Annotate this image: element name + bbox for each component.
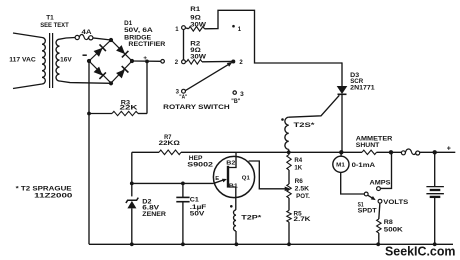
transformer T1 primary winding: [13, 33, 45, 89]
svg-text:B2: B2: [226, 161, 235, 167]
Q1 B1 lead: [229, 187, 236, 210]
node bridge top: [109, 38, 113, 42]
svg-text:VOLTS: VOLTS: [383, 199, 408, 206]
wire plus vertical: [146, 61, 148, 113]
label 1 right: [238, 27, 242, 33]
label SPDT: [358, 208, 377, 215]
label quote A: [179, 95, 187, 101]
label 22Kohm: [159, 140, 180, 147]
node shunt right: [389, 150, 393, 154]
svg-text:+: +: [447, 146, 451, 153]
label quote B: [231, 99, 240, 105]
svg-text:1K: 1K: [294, 165, 302, 172]
switch S1 VOLTS contact: [378, 199, 382, 203]
Q1 B2 lead: [229, 152, 236, 167]
zener diode D2: [126, 198, 138, 245]
label RECTIFIER: [128, 41, 166, 48]
node plus: [145, 60, 149, 64]
node zener bottom: [130, 242, 134, 246]
wire fuse to bridge: [93, 38, 111, 40]
label 0-1mA: [352, 162, 376, 169]
node bridge left: [87, 59, 91, 63]
svg-text:RECTIFIER: RECTIFIER: [128, 41, 166, 48]
svg-text:2N1771: 2N1771: [350, 84, 375, 91]
Q1 emitter lead: [214, 179, 227, 184]
rotary contact A1: [182, 26, 186, 30]
svg-text:SeekIC.com: SeekIC.com: [385, 244, 456, 258]
node bridge bottom: [109, 81, 113, 85]
svg-text:S9002: S9002: [187, 162, 213, 169]
svg-text:B1: B1: [229, 184, 238, 190]
switch S1 arm: [368, 195, 376, 200]
transformer T2S winding: [285, 117, 289, 152]
resistor R5: [287, 210, 291, 244]
node C1 bottom: [181, 242, 185, 246]
label T2S: [294, 122, 316, 129]
svg-text:16V: 16V: [60, 56, 72, 63]
label M1: [336, 162, 345, 168]
resistor R8: [377, 203, 381, 244]
svg-text:D1: D1: [124, 20, 133, 27]
wire A1-A2 strap: [183, 30, 185, 60]
svg-text:2.7K: 2.7K: [294, 216, 312, 223]
label R8: [384, 219, 394, 226]
svg-text:SEE TEXT: SEE TEXT: [40, 22, 69, 29]
meter M1 bottom wire: [341, 172, 365, 194]
label S9002: [187, 162, 213, 169]
bridge diode lower-right: [116, 66, 128, 78]
resistor R7: [159, 150, 181, 155]
label HEP: [189, 155, 203, 162]
terminal plus open circle: [161, 60, 165, 64]
label 1K: [294, 165, 302, 172]
label SEE TEXT: [40, 22, 69, 29]
label 2 left: [175, 60, 179, 66]
node B2: [231, 60, 235, 64]
transistor Q1 circle: [213, 156, 254, 197]
node R5 bottom: [287, 242, 291, 246]
rotary contact B1: [232, 25, 235, 28]
svg-text:R6: R6: [295, 178, 304, 185]
potentiometer R6: [287, 184, 291, 210]
meter M1: [333, 152, 349, 172]
bridge diode upper-left: [94, 44, 106, 56]
label R2 30W: [190, 53, 206, 60]
label D1: [124, 20, 133, 27]
label 16V: [60, 56, 72, 63]
SCR D3 gate wire: [289, 95, 340, 117]
svg-text:SHUNT: SHUNT: [356, 142, 380, 149]
svg-text:ROTARY SWITCH: ROTARY SWITCH: [163, 104, 230, 111]
label R2: [190, 41, 201, 48]
label 117 VAC: [9, 56, 36, 63]
label plus output: [447, 146, 451, 153]
resistor R4: [287, 152, 291, 184]
label 3 left: [176, 89, 180, 95]
svg-text:POT.: POT.: [296, 193, 310, 200]
svg-text:3: 3: [240, 91, 244, 98]
wire Q1 to pot wiper: [249, 161, 291, 191]
wire zener node to emitter: [132, 182, 214, 184]
label ROTARY SWITCH: [163, 104, 230, 111]
node battery top: [433, 150, 437, 154]
node R8 bottom: [376, 242, 380, 246]
node R3 left: [87, 112, 91, 116]
label 2N1771: [350, 84, 375, 91]
label B2: [226, 161, 235, 167]
label R3: [121, 99, 131, 106]
label POT.: [296, 193, 310, 200]
capacitor C1: [176, 183, 189, 244]
label T2 part number: [34, 192, 73, 199]
transformer T1 secondary winding: [56, 38, 111, 84]
svg-text:E: E: [215, 176, 219, 182]
battery B1: [426, 152, 444, 244]
svg-text:50V: 50V: [190, 211, 206, 218]
svg-text:C1: C1: [190, 196, 200, 203]
label R1 9ohm: [190, 15, 201, 22]
svg-text:R1: R1: [190, 6, 200, 13]
bridge diode lower-left: [94, 67, 106, 79]
resistor R2: [185, 60, 231, 65]
wire AMPS to shunt: [381, 152, 392, 188]
label plus small: [143, 55, 147, 62]
fuse F1 4A: [75, 34, 93, 39]
svg-text:T2S*: T2S*: [294, 122, 316, 129]
label R7: [164, 134, 172, 141]
svg-text:30W: 30W: [190, 53, 206, 60]
label 2.5K: [295, 186, 310, 193]
label Q1: [242, 176, 251, 182]
label 50V: [190, 211, 206, 218]
label 6.8V: [142, 205, 160, 212]
svg-text:22K: 22K: [120, 105, 139, 112]
label R1: [190, 6, 200, 13]
svg-text:Q1: Q1: [242, 176, 251, 182]
label .1uF: [190, 204, 207, 211]
label 2.7K: [294, 216, 312, 223]
transformer T2P winding: [234, 210, 236, 244]
svg-text:R8: R8: [384, 219, 394, 226]
output fuse: [401, 149, 419, 155]
wire bottom rail: [89, 243, 453, 245]
label 50V 6A: [124, 27, 153, 34]
label T1: [46, 14, 54, 21]
bridge diode upper-right: [116, 45, 128, 57]
label S1: [358, 202, 364, 209]
label D3: [350, 72, 360, 79]
label AMMETER: [356, 136, 393, 143]
svg-text:SPDT: SPDT: [358, 208, 377, 215]
node battery bottom: [433, 242, 437, 246]
label 22K: [120, 105, 139, 112]
label 1 left: [175, 27, 179, 33]
watermark SeekIC.com: [385, 244, 456, 258]
node C1 top: [181, 182, 185, 186]
wire R7 corner to zener node: [131, 152, 133, 196]
wire bridge to plus terminal: [132, 60, 161, 62]
SCR D3: [337, 62, 348, 152]
wire neg rail vertical: [88, 61, 90, 244]
svg-text:M1: M1: [336, 162, 345, 168]
label C1: [190, 196, 200, 203]
transformer T1 core: [50, 33, 53, 88]
svg-text:4A: 4A: [82, 29, 92, 36]
node bridge right: [130, 59, 134, 63]
svg-text:+: +: [143, 55, 147, 62]
label VOLTS: [383, 199, 408, 206]
T2S polarity dot: [281, 118, 284, 121]
label SHUNT: [356, 142, 380, 149]
label R5: [294, 211, 303, 218]
label R6: [295, 178, 304, 185]
Q1 base bar: [227, 166, 229, 188]
svg-text:"A": "A": [179, 95, 187, 101]
label D2: [142, 199, 152, 206]
label R4: [294, 157, 302, 164]
rotary switch wiper arm: [185, 62, 232, 91]
switch S1 AMPS contact: [377, 187, 381, 191]
label R2 9ohm: [190, 47, 201, 54]
node R4 top: [287, 150, 291, 154]
switch S1 common: [364, 192, 368, 196]
node T2P bottom: [235, 242, 239, 246]
label 3 right: [240, 91, 244, 98]
rotary contact A3: [182, 89, 186, 93]
wire main line: [132, 151, 456, 153]
svg-text:117 VAC: 117 VAC: [9, 56, 36, 63]
svg-text:R4: R4: [294, 157, 302, 164]
svg-text:AMPS: AMPS: [370, 180, 391, 187]
label minus: [83, 54, 87, 56]
label AMPS: [370, 180, 391, 187]
svg-text:50V, 6A: 50V, 6A: [124, 27, 153, 34]
label ZENER: [142, 211, 166, 218]
svg-text:22KΩ: 22KΩ: [159, 140, 180, 147]
svg-text:"B": "B": [231, 99, 240, 105]
svg-text:2.5K: 2.5K: [295, 186, 310, 193]
svg-text:500K: 500K: [384, 227, 404, 234]
svg-text:30W: 30W: [190, 21, 206, 28]
node zener top: [130, 182, 134, 186]
label T2P: [241, 215, 262, 222]
svg-text:0-1mA: 0-1mA: [352, 162, 376, 169]
svg-text:T2P*: T2P*: [241, 215, 262, 222]
label R1 30W: [190, 21, 206, 28]
label BRIDGE: [124, 34, 151, 41]
node SCR cathode: [339, 150, 343, 154]
label E: [215, 176, 219, 182]
T2P polarity dot: [230, 205, 233, 208]
resistor R1: [185, 10, 342, 63]
bridge rectifier D1 frame: [89, 40, 132, 83]
label 2 right: [239, 60, 243, 66]
label 4A: [82, 29, 92, 36]
svg-text:ZENER: ZENER: [142, 211, 166, 218]
label SCR: [350, 78, 364, 85]
rotary contact B3: [233, 91, 236, 94]
label 500K: [384, 227, 404, 234]
svg-text:T1: T1: [46, 14, 54, 21]
label T2 note: [16, 185, 72, 192]
rotary contact A2: [182, 60, 186, 64]
ammeter shunt resistor: [362, 150, 377, 154]
resistor R3: [89, 111, 147, 115]
label B1: [229, 184, 238, 190]
svg-text:11Z2000: 11Z2000: [34, 192, 73, 199]
